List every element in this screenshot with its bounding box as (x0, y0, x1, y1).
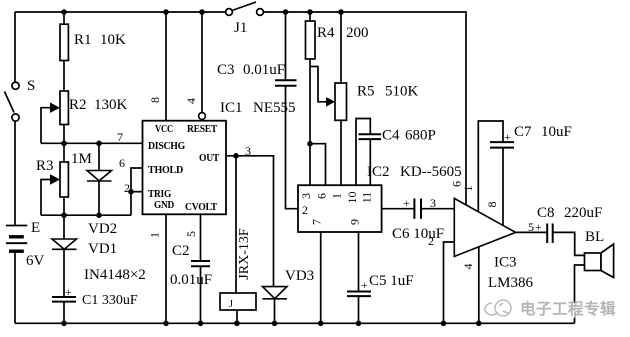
svg-text:0.01uF: 0.01uF (170, 272, 212, 288)
wire R4 to IC2 pin3 (309, 59, 311, 185)
watermark logo icon (485, 300, 511, 316)
svg-text:7: 7 (117, 130, 123, 144)
svg-text:LM386: LM386 (488, 275, 534, 291)
wire battery to ground rail (14, 252, 16, 324)
svg-text:200: 200 (346, 25, 369, 41)
resistor R3 (pot) (50, 162, 68, 197)
resistor R2 (pot) (50, 91, 68, 125)
svg-text:C4: C4 (382, 128, 400, 144)
wire VD2 top (98, 143, 100, 170)
svg-text:IN4148×2: IN4148×2 (84, 267, 146, 283)
svg-text:KD--5605: KD--5605 (400, 164, 462, 180)
wire pin6/2 bracket (131, 168, 143, 215)
svg-text:10K: 10K (100, 32, 126, 48)
wire relay coil drive (235, 156, 237, 293)
svg-text:1M: 1M (71, 151, 92, 167)
wire IC2 out to C6 (382, 208, 415, 210)
svg-text:2: 2 (124, 181, 130, 195)
svg-text:9: 9 (348, 219, 362, 225)
svg-text:IC2: IC2 (367, 164, 390, 180)
wire R2 wiper (41, 108, 52, 144)
wire bottom ground rail (15, 322, 575, 324)
svg-text:C7: C7 (514, 124, 532, 140)
wire top rail left (15, 11, 226, 13)
wire R5 wiper branch (310, 67, 327, 102)
wire relay bottom (236, 310, 238, 323)
capacitor C7 (490, 142, 514, 148)
svg-text:R5: R5 (357, 84, 375, 100)
svg-text:OUT: OUT (199, 152, 220, 164)
svg-text:JRX-13F: JRX-13F (237, 228, 252, 280)
svg-text:1: 1 (330, 193, 344, 199)
wire VD2 bottom (98, 181, 100, 215)
svg-text:3: 3 (299, 193, 313, 199)
svg-text:+: + (504, 130, 511, 144)
wire pin4 (201, 12, 203, 113)
wire C7 bracket pin1 (478, 121, 503, 212)
svg-text:GND: GND (154, 199, 174, 211)
capacitor C2 (191, 261, 210, 266)
svg-text:BL: BL (585, 229, 604, 245)
svg-text:7: 7 (310, 219, 324, 225)
svg-text:4: 4 (184, 98, 198, 104)
capacitor C8 (547, 224, 553, 244)
capacitor C5 (347, 292, 371, 297)
svg-text:CVOLT: CVOLT (185, 201, 218, 213)
wire C3 top (285, 12, 287, 80)
svg-text:IC3: IC3 (494, 255, 517, 271)
svg-text:510K: 510K (385, 84, 419, 100)
wire C5 bottom (358, 296, 360, 323)
svg-text:+: + (65, 285, 72, 299)
capacitor C3 (275, 80, 297, 86)
svg-text:2: 2 (302, 203, 308, 217)
capacitor C4 (359, 134, 382, 139)
wire pin3 out (226, 156, 274, 287)
svg-text:+: + (403, 196, 410, 210)
svg-text:E: E (31, 220, 40, 236)
svg-text:4: 4 (461, 264, 475, 270)
capacitor C6 (414, 199, 421, 219)
svg-text:R1: R1 (74, 32, 92, 48)
wire C3 to IC2 pin2 (286, 86, 299, 209)
svg-text:8: 8 (485, 202, 499, 208)
svg-text:VD2: VD2 (88, 221, 117, 237)
svg-text:3: 3 (245, 144, 251, 158)
svg-text:680P: 680P (405, 128, 436, 144)
wire R1-R2 (63, 61, 65, 92)
relay J box (220, 293, 256, 310)
resistor R1 (60, 24, 68, 60)
diode VD3 (263, 287, 288, 299)
resistor R5 (pot) (326, 83, 347, 120)
svg-text:8: 8 (148, 97, 162, 103)
wire R5 top (340, 12, 342, 83)
svg-text:1: 1 (148, 232, 162, 238)
svg-text:5: 5 (184, 231, 198, 237)
svg-text:130K: 130K (94, 97, 128, 113)
wire C2 bottom (200, 266, 202, 323)
resistor R4 (306, 21, 316, 59)
svg-text:S: S (27, 78, 35, 94)
wire R2-R3 (63, 143, 65, 162)
svg-text:VD3: VD3 (285, 268, 314, 284)
wire node row pin7 (41, 142, 143, 144)
IC1 NE555 box (143, 121, 227, 215)
svg-text:C5 1uF: C5 1uF (369, 273, 414, 289)
wire IC3 pin4 gnd (478, 247, 480, 323)
svg-text:VD1: VD1 (88, 241, 117, 257)
wire R4 branch to pin6 (310, 144, 326, 186)
IC1 pin4 reset terminal circle (199, 113, 206, 120)
svg-text:10uF: 10uF (541, 124, 572, 140)
capacitor C1 (52, 297, 76, 302)
wire top rail right (263, 12, 466, 205)
svg-text:C6 10uF: C6 10uF (392, 226, 444, 242)
svg-text:C3: C3 (217, 62, 235, 78)
svg-text:6V: 6V (26, 253, 45, 269)
svg-text:R4: R4 (317, 25, 335, 41)
switch J1 (226, 2, 264, 15)
wire C7 to pin8 (502, 148, 504, 226)
svg-text:10: 10 (345, 192, 359, 204)
wire R1 top (63, 12, 65, 24)
wire R2 bottom (63, 125, 65, 144)
battery E (6, 226, 27, 252)
wire left column lower (14, 122, 16, 226)
wire node row trig (41, 214, 131, 216)
svg-text:IC1: IC1 (220, 100, 243, 116)
svg-text:6: 6 (119, 156, 125, 170)
wire C4 to pin11 (369, 139, 371, 185)
svg-text:5: 5 (528, 220, 534, 234)
svg-text:THOLD: THOLD (148, 164, 183, 176)
wire pin5 cvolt (200, 214, 202, 260)
wire R3 wiper (41, 180, 52, 216)
wire IC3 pin2 gnd (444, 242, 455, 323)
svg-text:+: + (361, 278, 368, 292)
speaker BL (585, 244, 614, 278)
wire C1 bottom (63, 302, 65, 324)
svg-text:220uF: 220uF (564, 205, 602, 221)
wire VD3 bottom (274, 299, 276, 324)
svg-text:RESET: RESET (187, 123, 218, 135)
wire IC2 pin9 (358, 232, 360, 291)
svg-text:11: 11 (360, 192, 374, 204)
svg-text:电子工程专辑: 电子工程专辑 (520, 299, 616, 318)
svg-text:2: 2 (428, 234, 434, 248)
svg-text:DISCHG: DISCHG (148, 140, 186, 152)
wire pin8 (165, 12, 167, 121)
diode VD1 (52, 239, 77, 249)
wire R4 top (309, 12, 311, 21)
op-amp IC3 triangle (454, 198, 515, 256)
svg-text:VCC: VCC (155, 123, 173, 135)
wire IC2 pin7 gnd (320, 232, 322, 323)
svg-text:6: 6 (315, 193, 329, 199)
wire speaker return (575, 265, 585, 323)
svg-text:J1: J1 (234, 20, 247, 36)
svg-text:1: 1 (461, 186, 475, 192)
svg-text:J: J (229, 299, 233, 310)
svg-text:C8: C8 (537, 205, 555, 221)
wire C8 to speaker (553, 232, 585, 255)
wire left column upper (14, 12, 16, 82)
IC2 KD-5605 box (298, 185, 382, 232)
svg-text:+: + (535, 220, 542, 234)
svg-text:0.01uF: 0.01uF (243, 62, 285, 78)
svg-text:3: 3 (430, 196, 436, 210)
diode VD2 (87, 171, 112, 182)
switch S (5, 82, 20, 121)
svg-text:C2: C2 (172, 243, 190, 259)
wire VD1 to C1 (63, 215, 65, 239)
svg-text:R2: R2 (69, 97, 87, 113)
wire IC3 out to C8 (516, 231, 547, 233)
wire C6 to IC3 pin3 (421, 208, 454, 210)
wire R3 bottom (63, 197, 65, 215)
svg-text:NE555: NE555 (253, 100, 296, 116)
wire pin1 gnd (165, 214, 167, 323)
wire R5 to IC2 pin1 (340, 120, 342, 185)
wire C4 loop (356, 119, 370, 186)
svg-text:C1 330uF: C1 330uF (82, 293, 138, 308)
svg-text:R3: R3 (36, 158, 54, 174)
